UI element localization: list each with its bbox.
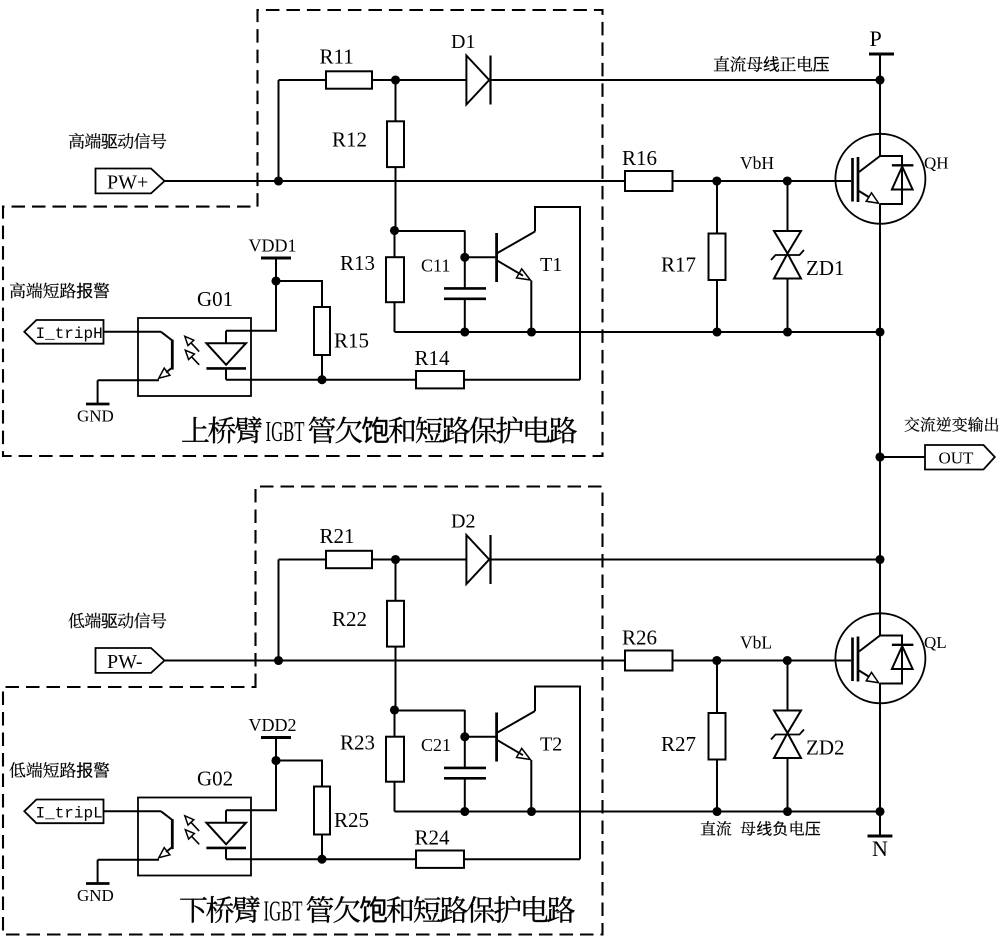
svg-text:D1: D1: [451, 31, 475, 53]
svg-text:T2: T2: [540, 734, 562, 756]
wire I_tripL to phototransistor: [104, 810, 162, 812]
svg-text:R15: R15: [334, 329, 369, 353]
svg-text:T1: T1: [540, 254, 562, 276]
svg-text:I_tripL: I_tripL: [36, 805, 103, 823]
wire PW- to R26: [165, 660, 626, 662]
node C11 bottom on rail: [460, 327, 469, 336]
svg-text:R16: R16: [622, 146, 657, 170]
dashed enclosure: upper bridge-arm protection circuit block: [3, 10, 603, 456]
node ZD2 bottom on rail: [783, 807, 792, 816]
dashed enclosure: lower bridge-arm protection circuit block: [3, 487, 603, 935]
optocoupler G01 phototransistor: [161, 332, 172, 341]
svg-text:R26: R26: [622, 626, 657, 650]
node R12/R13/C11: [390, 226, 399, 235]
capacitor C11: [395, 230, 465, 232]
wire R11 to D1: [372, 79, 466, 81]
resistor R16: [625, 171, 673, 191]
wire R16 to IGBT gate: [673, 180, 852, 182]
node IGBT emitter on rail: [875, 807, 884, 816]
optocoupler G02 LED: [225, 810, 227, 823]
wire top bus D1 to IGBT collector: [491, 79, 881, 81]
node R17 top: [712, 176, 721, 185]
node ZD1 bottom on rail: [783, 327, 792, 336]
resistor R12: [395, 80, 397, 121]
node R27 bottom on rail: [712, 807, 721, 816]
svg-text:R17: R17: [661, 253, 696, 277]
node T1 emitter on rail: [527, 327, 536, 336]
node C21 bottom on rail: [460, 807, 469, 816]
node top bus / IGBT collector: [875, 75, 884, 84]
svg-text:R14: R14: [415, 346, 451, 370]
svg-text:I_tripH: I_tripH: [36, 325, 103, 343]
svg-text:VbL: VbL: [740, 633, 772, 653]
svg-text:D2: D2: [451, 511, 475, 533]
node VDD1: [271, 276, 280, 285]
label DC bus negative voltage (直流 母线负电压): [701, 821, 716, 835]
svg-text:R21: R21: [320, 524, 355, 548]
power VDD2: [261, 736, 291, 739]
svg-text:OUT: OUT: [939, 449, 975, 468]
svg-text:G02: G02: [197, 767, 233, 791]
node PW- branch: [274, 656, 283, 665]
terminal P: [869, 53, 894, 56]
svg-text:IGBT: IGBT: [264, 897, 303, 928]
wire QH emitter to QL collector: [879, 332, 881, 560]
label alarm text (高端短路报警): [10, 283, 25, 299]
resistor R24: [226, 858, 580, 860]
diode D2: [466, 535, 489, 584]
diode D1: [466, 56, 489, 105]
wire T1 collector loop to R14: [535, 207, 580, 380]
svg-text:ZD2: ZD2: [806, 736, 845, 760]
wire to OUT port: [880, 456, 925, 458]
resistor R15: [314, 307, 330, 355]
node R27 top: [712, 656, 721, 665]
terminal N: [868, 835, 893, 838]
resistor R14: [226, 379, 580, 381]
wire VDD1 to optocoupler LED anode: [226, 281, 276, 331]
svg-text:C21: C21: [421, 735, 451, 755]
resistor R11: [326, 71, 372, 88]
wire T2 collector loop to R24: [535, 687, 580, 860]
svg-text:GND: GND: [77, 886, 114, 905]
node R15 bottom / R14 wire: [317, 375, 326, 384]
svg-text:QH: QH: [924, 154, 949, 173]
svg-text:R25: R25: [334, 808, 369, 832]
optocoupler G01 LED: [225, 331, 227, 344]
svg-text:IGBT: IGBT: [266, 417, 305, 448]
port PW-: [96, 648, 165, 673]
svg-text:R24: R24: [415, 826, 451, 850]
node T2 emitter on rail: [527, 807, 536, 816]
optocoupler G01 package: [138, 318, 251, 396]
svg-text:PW-: PW-: [107, 651, 143, 673]
zener diode ZD2: [787, 661, 789, 711]
power VDD1: [261, 257, 291, 260]
wire R26 to IGBT gate: [673, 660, 852, 662]
wire top bus D2 to IGBT collector: [491, 559, 881, 561]
IGBT QL: [835, 613, 925, 703]
node R17 bottom on rail: [712, 327, 721, 336]
resistor R17: [716, 181, 718, 234]
label drive-signal text (低端驱动信号): [69, 613, 85, 629]
resistor R21: [326, 551, 372, 568]
port I_tripH: [24, 320, 103, 344]
wire I_tripH to phototransistor: [104, 331, 162, 333]
node PW+ branch: [274, 176, 283, 185]
node R11 output / R12 top: [391, 75, 400, 84]
title lower block (下桥臂IGBT管欠饱和短路保护电路): [180, 897, 207, 923]
node R25 bottom / R24 wire: [317, 855, 326, 864]
node R21 output / R22 top: [391, 555, 400, 564]
optocoupler G02 package: [138, 798, 251, 876]
node IGBT emitter on rail: [875, 327, 884, 336]
node C21 top / base wire: [460, 732, 469, 741]
capacitor C21: [395, 710, 465, 712]
wire PW+ to R16: [165, 180, 626, 182]
wire VDD2 to R25: [276, 761, 322, 787]
svg-text:VbH: VbH: [740, 153, 774, 173]
resistor R13: [394, 231, 396, 258]
optocoupler G01 light arrows: [191, 343, 199, 352]
port I_tripL: [24, 800, 103, 824]
wire branch up to top bus: [278, 560, 280, 661]
svg-text:VDD1: VDD1: [249, 236, 297, 256]
port OUT: [925, 445, 995, 470]
wire branch up to top bus: [278, 80, 280, 181]
svg-text:GND: GND: [77, 407, 114, 426]
svg-text:C11: C11: [421, 256, 450, 276]
svg-text:R12: R12: [332, 128, 367, 152]
transistor T1: [465, 256, 497, 258]
svg-text:R13: R13: [340, 251, 375, 275]
svg-text:QL: QL: [924, 633, 947, 652]
wire R23 bottom to emitter rail: [394, 782, 396, 812]
svg-text:R22: R22: [332, 607, 367, 631]
resistor R26: [625, 651, 673, 671]
node VDD2: [271, 756, 280, 765]
wire VDD2 to optocoupler LED anode: [226, 761, 276, 811]
svg-text:R23: R23: [340, 731, 375, 755]
node ZD1 top: [783, 176, 792, 185]
label drive-signal text (高端驱动信号): [69, 133, 84, 149]
wire VDD1 to R15: [276, 281, 322, 307]
label DC bus positive voltage (直流母线正电压): [714, 56, 730, 71]
node top bus / IGBT collector: [875, 555, 884, 564]
ground GND: [98, 379, 159, 381]
label AC inverter output (交流逆变输出): [905, 417, 920, 432]
node ZD2 top: [783, 656, 792, 665]
svg-text:P: P: [870, 26, 882, 51]
resistor R27: [716, 661, 718, 714]
optocoupler G02 phototransistor: [161, 811, 172, 820]
svg-text:PW+: PW+: [107, 171, 148, 193]
wire R13 bottom to emitter rail: [394, 302, 396, 332]
label alarm text (低端短路报警): [10, 762, 26, 778]
port PW+: [96, 169, 165, 194]
IGBT QH: [835, 134, 925, 224]
resistor R22: [395, 560, 397, 601]
transistor T2: [465, 736, 497, 738]
node C11 top / base wire: [460, 253, 469, 262]
optocoupler G02 light arrows: [191, 823, 199, 832]
svg-text:VDD2: VDD2: [249, 715, 297, 735]
resistor R25: [314, 787, 330, 835]
svg-text:N: N: [872, 836, 888, 861]
svg-text:ZD1: ZD1: [806, 256, 845, 280]
svg-text:G01: G01: [197, 287, 233, 311]
ground GND: [98, 859, 159, 861]
svg-text:R27: R27: [661, 732, 696, 756]
zener diode ZD1: [787, 181, 789, 231]
wire R21 to D2: [372, 559, 466, 561]
node output junction: [875, 452, 884, 461]
node R22/R23/C21: [390, 705, 399, 714]
svg-text:R11: R11: [320, 45, 354, 69]
title upper block (上桥臂IGBT管欠饱和短路保护电路): [182, 417, 209, 442]
resistor R23: [394, 710, 396, 737]
